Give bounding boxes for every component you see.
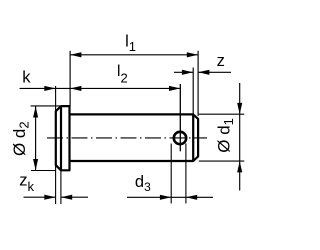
- arrow d3 right: [186, 195, 197, 200]
- arrow k: [44, 86, 55, 91]
- extension line pin end face (l1 right / z right): [197, 51, 199, 116]
- extension line end chamfer (z left): [192, 68, 194, 115]
- head chamfer edge line: [60, 106, 62, 170]
- arrow d2 top: [33, 106, 38, 117]
- dimension line d3: [127, 196, 213, 198]
- extension line head bottom left (d2): [31, 170, 56, 172]
- dimension line d1: [239, 83, 241, 191]
- arrow l1 right: [187, 52, 198, 57]
- extension line hole left (d3): [170, 144, 172, 204]
- hole centerline / l2 extension: [179, 84, 181, 151]
- arrow l2 right: [169, 86, 180, 91]
- arrow d2 bottom: [33, 159, 38, 170]
- extension line head chamfer (zk right): [60, 170, 62, 204]
- arrow z right: [198, 70, 209, 75]
- dimension line d2: [35, 106, 37, 170]
- arrow d3 left: [160, 195, 171, 200]
- extension line head top left (d2): [31, 105, 60, 107]
- svg-text:k: k: [22, 69, 31, 87]
- arrow zk right: [61, 195, 72, 200]
- pin head outline: [56, 106, 70, 170]
- dimension line zk right: [61, 196, 88, 198]
- dimension line zk left: [24, 196, 56, 198]
- split pin hole: [174, 132, 186, 144]
- dimension line l1: [70, 54, 198, 56]
- arrow l1 left: [70, 52, 81, 57]
- arrow d1 top: [237, 103, 242, 114]
- shank outline: [70, 114, 199, 161]
- centerline: [47, 137, 207, 139]
- svg-text:z: z: [217, 52, 225, 70]
- extension line shank bottom right (d1): [199, 160, 245, 162]
- arrow zk left: [44, 195, 55, 200]
- dimension line z left: [174, 71, 193, 73]
- dimension line l2 / leader k: [20, 87, 181, 89]
- extension line under-head (l1/l2/k): [69, 51, 71, 106]
- end chamfer edge line: [192, 114, 194, 161]
- dimension line z right: [198, 71, 231, 73]
- arrow l2 left: [70, 86, 81, 91]
- extension line head left face (k / zk): [55, 86, 57, 204]
- arrow d1 bottom: [237, 161, 242, 172]
- arrow z left: [182, 70, 193, 75]
- extension line hole right (d3): [185, 144, 187, 204]
- extension line shank top right (d1): [199, 113, 245, 115]
